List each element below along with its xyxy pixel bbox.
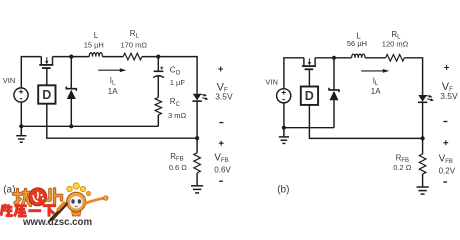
wire: LED cathode to FB node (a) <box>196 101 198 138</box>
svg-text:0.2 Ω: 0.2 Ω <box>393 163 412 172</box>
capacitor CO polarized (a) <box>153 66 164 77</box>
svg-text:VIN: VIN <box>265 78 278 87</box>
svg-text:www.dzsc.com: www.dzsc.com <box>22 217 92 228</box>
watermark mascot head <box>67 192 86 211</box>
source VIN (a) <box>14 88 28 102</box>
wire: top rail FET to inductor (a) <box>53 56 90 58</box>
watermark char pian <box>47 189 61 206</box>
wire: RFB to ground (a) <box>196 173 198 186</box>
node: feedback junction (a) <box>195 136 199 140</box>
watermark mascot body <box>72 211 82 217</box>
wire: FB node to RFB (a) <box>196 138 198 153</box>
label - VF (b) <box>443 121 447 123</box>
wire: CO to RC (a) <box>157 76 159 97</box>
transistor Q1 PMOS pass FET (b) <box>302 58 316 70</box>
node: CO top junction (a) <box>156 55 160 59</box>
wire: top rail FET to inductor (b) <box>315 57 352 59</box>
wire: feedback from driver (b) <box>309 105 422 138</box>
svg-text:(b): (b) <box>277 185 289 196</box>
driver block D (a) <box>38 85 55 103</box>
svg-text:IL: IL <box>373 76 379 87</box>
svg-text:3.5V: 3.5V <box>215 92 233 102</box>
ground (b) right <box>417 187 429 194</box>
svg-text:VFB: VFB <box>214 153 228 165</box>
svg-text:120 mΩ: 120 mΩ <box>382 39 409 48</box>
svg-text:L: L <box>94 31 99 40</box>
wire: VIN to top rail (a) <box>21 57 41 88</box>
svg-text:56 µH: 56 µH <box>347 39 367 48</box>
watermark char zhao <box>14 190 31 206</box>
node: diode bottom junction (a) <box>69 124 73 128</box>
svg-text:VFB: VFB <box>439 153 453 165</box>
wire: RL to LED corner (b) <box>404 58 422 95</box>
svg-text:VIN: VIN <box>3 76 16 85</box>
source VIN (b) <box>277 89 291 103</box>
wire: RFB to ground (b) <box>422 174 424 187</box>
label - VFB (b) <box>443 181 447 183</box>
watermark mascot bulbs <box>67 183 91 196</box>
label + VF (b) <box>444 65 449 70</box>
svg-text:3.5V: 3.5V <box>440 91 458 101</box>
resistor RFB (a) <box>194 153 201 173</box>
wire: bottom rail (b) <box>284 127 334 129</box>
svg-text:1A: 1A <box>108 87 118 96</box>
wire: VIN source to ground node (b) <box>283 103 285 128</box>
svg-text:D: D <box>42 88 51 102</box>
svg-text:0.2V: 0.2V <box>439 167 456 176</box>
watermark text weiku yixia <box>1 204 56 217</box>
svg-text:RC: RC <box>170 97 181 108</box>
wire: gate to driver (b) <box>308 70 310 86</box>
wire: VIN to top rail (b) <box>284 58 304 89</box>
wire: RC to bottom rail (a) <box>157 115 159 126</box>
diode D1 schottky (b) <box>329 58 339 128</box>
svg-text:IL: IL <box>110 76 116 87</box>
svg-text:15 µH: 15 µH <box>84 41 104 50</box>
wire: FB node to RFB (b) <box>422 138 424 154</box>
label + VFB (b) <box>443 140 448 145</box>
resistor RFB (b) <box>419 154 426 174</box>
svg-text:CO: CO <box>170 66 181 77</box>
wire: RL to LED corner (a) <box>142 57 197 94</box>
svg-text:1A: 1A <box>371 87 381 96</box>
svg-text:170 mΩ: 170 mΩ <box>121 41 148 50</box>
inductor L (b) <box>352 54 365 58</box>
ground (b) left <box>279 128 289 144</box>
node: diode top junction (a) <box>69 55 73 59</box>
wire: inductor to RL (a) <box>102 56 123 58</box>
wire: VIN source to ground node (a) <box>20 102 22 126</box>
wire: feedback from driver (a) <box>47 104 197 139</box>
ground (a) left <box>16 126 26 142</box>
svg-text:RL: RL <box>130 29 140 40</box>
watermark mascot arm <box>85 196 108 204</box>
resistor RC (a) <box>155 97 161 115</box>
wire: inductor to RL (b) <box>365 57 386 59</box>
node: ground junction (a) <box>19 124 23 128</box>
svg-text:D: D <box>305 89 314 103</box>
svg-text:0.6V: 0.6V <box>214 166 231 175</box>
inductor L (a) <box>89 53 102 57</box>
LED D2 (a) <box>192 94 208 102</box>
resistor RL (b) <box>386 55 405 62</box>
svg-text:1 µF: 1 µF <box>170 78 186 87</box>
transistor Q1 PMOS pass FET (a) <box>39 57 53 69</box>
svg-text:0.6 Ω: 0.6 Ω <box>169 163 188 172</box>
label + VF (a) <box>218 67 223 72</box>
current arrow IL (a) <box>98 68 126 72</box>
diode D1 schottky (a) <box>66 57 76 127</box>
node: feedback junction (b) <box>421 136 425 140</box>
watermark mascot pencil <box>49 203 67 222</box>
wire: LED cathode to FB node (b) <box>422 102 424 138</box>
watermark red ball xin <box>29 188 47 206</box>
node: diode top junction (b) <box>332 56 336 60</box>
label - VF (a) <box>219 122 223 124</box>
label + VFB (a) <box>219 141 224 146</box>
svg-text:RFB: RFB <box>170 152 183 163</box>
wire: gate to driver (a) <box>46 69 48 85</box>
driver block D (b) <box>301 87 318 105</box>
current arrow IL (b) <box>361 69 389 73</box>
wire: junction to CO (a) <box>157 57 159 71</box>
resistor RL (a) <box>123 53 142 60</box>
LED D2 (b) <box>418 95 434 103</box>
label - VFB (a) <box>219 180 223 182</box>
svg-text:3 mΩ: 3 mΩ <box>168 111 187 120</box>
node: ground junction (b) <box>282 126 286 130</box>
wire: bottom rail (a) <box>21 125 158 127</box>
ground (a) right <box>191 186 203 193</box>
